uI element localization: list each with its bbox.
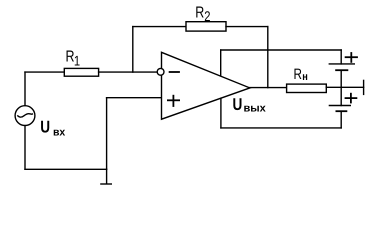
wire bottom horizontal — [25, 168, 107, 170]
battery E1 long plate — [329, 63, 354, 65]
svg-text:R: R — [195, 5, 204, 22]
wire negative supply down — [340, 111, 342, 128]
wire riser to non-inverting input — [106, 98, 108, 170]
battery E1 short plate — [336, 69, 347, 71]
resistor Rn load — [287, 84, 327, 92]
wire Rn right to middle node — [326, 86, 363, 88]
battery E2 short plate — [336, 110, 346, 112]
wire source top — [24, 72, 26, 106]
wire input top horizontal to R1 — [25, 71, 65, 73]
wire V- riser to op-amp bottom — [220, 98, 222, 128]
voltage source Uvx circle — [15, 106, 35, 126]
wire riser to R2 left — [133, 26, 186, 28]
ground — [106, 169, 108, 183]
wire positive supply top — [221, 49, 342, 51]
plus sign battery E2 — [346, 97, 357, 99]
label Uvx — [40, 118, 50, 137]
svg-text:вх: вх — [53, 127, 66, 139]
plus sign battery E1 — [346, 56, 357, 58]
wire feedback left riser — [132, 27, 134, 73]
label Uvyx — [233, 95, 243, 114]
wire battery interconnect through middle node — [340, 70, 342, 105]
wire negative supply bottom — [221, 127, 341, 129]
sine symbol — [18, 114, 33, 117]
op-amp U1 — [162, 52, 250, 119]
wire source bottom — [24, 125, 26, 169]
wire feedback down to output — [267, 27, 269, 88]
svg-text:U: U — [233, 95, 243, 114]
wire output — [250, 87, 287, 89]
wire V+ riser from op-amp top — [220, 50, 222, 78]
label Rn — [294, 66, 303, 83]
svg-text:R: R — [294, 66, 303, 83]
wire R1 to inverting input — [99, 71, 158, 73]
svg-text:н: н — [302, 71, 308, 83]
svg-text:вых: вых — [244, 103, 267, 115]
label R2 — [195, 5, 204, 22]
resistor R1 — [64, 68, 98, 76]
label R1 — [66, 49, 75, 66]
svg-text:2: 2 — [204, 8, 210, 24]
battery E2 long plate — [329, 105, 350, 107]
inverting input circle — [157, 68, 164, 75]
wire non-inverting input — [107, 97, 162, 99]
resistor R2 — [186, 22, 226, 31]
wire down to battery E1 — [340, 50, 342, 64]
svg-text:U: U — [40, 118, 50, 137]
svg-text:1: 1 — [74, 53, 80, 69]
terminal bar common node — [363, 80, 365, 94]
plus sign non-inverting input — [168, 99, 179, 101]
wire R2 right — [226, 26, 268, 28]
minus sign inverting input — [170, 71, 179, 73]
